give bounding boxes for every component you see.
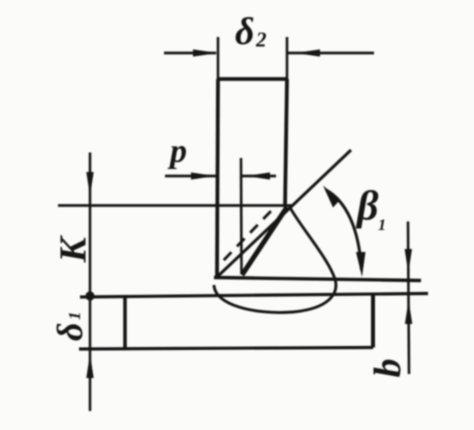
root gap top line <box>214 278 421 281</box>
label K (rotated) <box>53 235 95 264</box>
β1 angle arc <box>326 190 362 270</box>
svg-text:b: b <box>367 359 409 378</box>
extension line right above plate <box>286 37 289 79</box>
label b (rotated) <box>367 359 409 378</box>
β1 arc arrow lower <box>356 252 366 277</box>
K arrow (down) <box>86 172 93 196</box>
bevel angle reference line (45°) <box>217 150 351 277</box>
bevel line <box>242 207 287 275</box>
dimension line δ2 left segment with arrow <box>164 49 218 56</box>
svg-text:δ: δ <box>235 11 254 53</box>
b arrow (down) <box>405 249 412 273</box>
vertical plate outline <box>217 79 287 277</box>
label β1 <box>355 184 386 235</box>
dashed fusion line <box>221 211 271 263</box>
δ1 arrow (up) <box>86 354 93 378</box>
svg-text:δ: δ <box>50 323 90 341</box>
svg-text:2: 2 <box>255 28 267 52</box>
extension line p root face <box>240 158 243 274</box>
label δ2 <box>235 11 267 53</box>
svg-text:1: 1 <box>378 217 386 234</box>
weld face and root bead outline <box>214 207 336 313</box>
β1 arc arrow upper <box>323 186 340 208</box>
svg-text:K: K <box>53 235 95 264</box>
b arrow (up) <box>405 300 412 324</box>
bottom plate outline <box>79 294 373 349</box>
b dimension vertical line <box>408 222 409 375</box>
svg-text:p: p <box>167 133 187 170</box>
label p <box>167 133 187 170</box>
svg-text:β: β <box>355 184 379 230</box>
K dimension vertical line <box>89 153 92 412</box>
dimension line p left segment with arrow <box>165 172 216 179</box>
bottom plate top surface line <box>80 294 428 298</box>
K top extension line <box>58 204 293 207</box>
dimension line δ2 right segment with arrow <box>287 49 374 56</box>
label δ1 (rotated) <box>50 312 90 342</box>
shared dot node <box>85 291 94 300</box>
dimension line p right segment with arrow <box>242 172 276 179</box>
svg-text:1: 1 <box>65 312 84 321</box>
extension line left above plate <box>217 37 220 79</box>
